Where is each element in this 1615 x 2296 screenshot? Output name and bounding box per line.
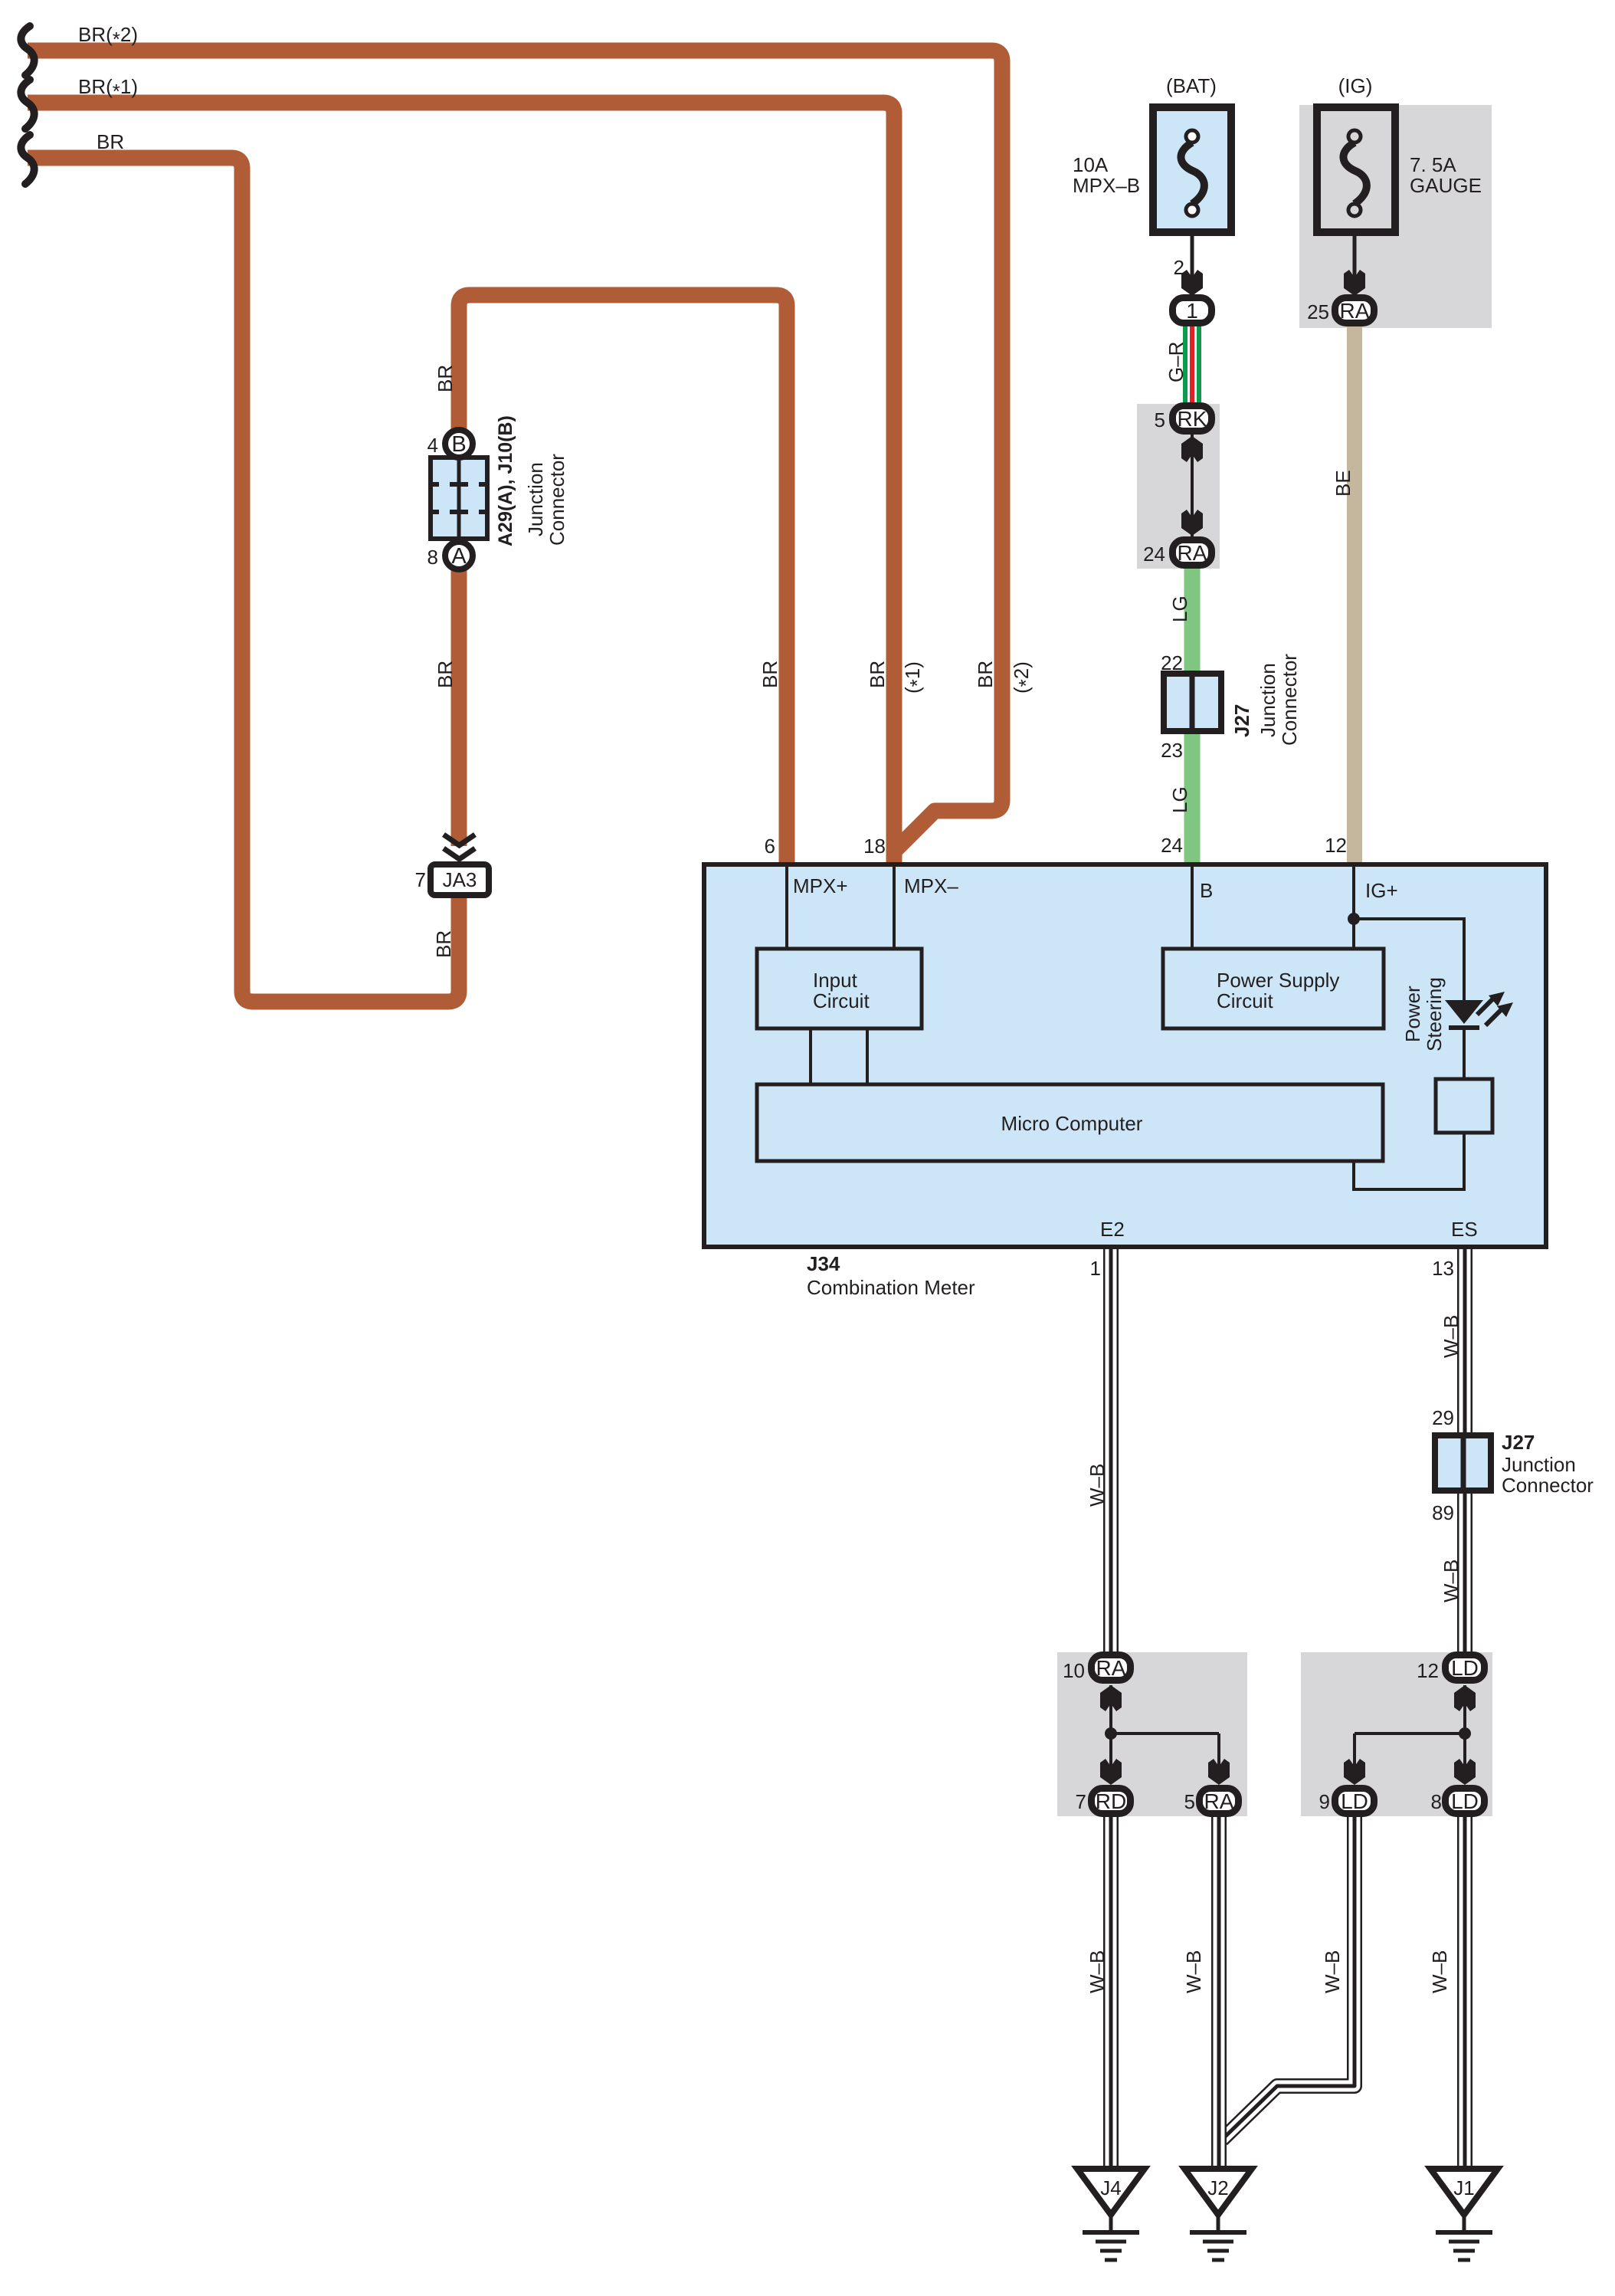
- junction connector J27 upper: [1164, 674, 1221, 731]
- arrow into connector 1: [1181, 270, 1203, 296]
- connector oval RA pin 25: [1335, 298, 1374, 323]
- svg-text:W–B: W–B: [1321, 1950, 1344, 1993]
- fuse 10A MPX-B (BAT): [1153, 107, 1231, 232]
- wire W-B from LD 8 to ground J1: [1457, 1805, 1472, 2169]
- svg-text:8: 8: [1431, 1790, 1442, 1813]
- svg-text:RA: RA: [1340, 299, 1370, 323]
- svg-text:A: A: [451, 544, 467, 569]
- svg-text:RD: RD: [1096, 1789, 1126, 1813]
- wire fuse IG to RA 25: [1353, 234, 1357, 296]
- svg-text:6: 6: [765, 835, 775, 858]
- wire pin 18 to input circuit: [893, 867, 896, 949]
- wire BR(*1) from left edge to pin 18 MPX-: [28, 103, 894, 868]
- connector oval RA pin 24: [1173, 540, 1212, 566]
- wire BE from RA 25 to pin 12 IG+: [1347, 310, 1362, 868]
- svg-text:LD: LD: [1451, 1789, 1479, 1813]
- svg-text:1: 1: [1186, 299, 1198, 323]
- svg-text:BR: BR: [758, 661, 781, 688]
- wire G-R connector 1 to RK: [1185, 310, 1199, 418]
- wire BR from left edge down and around to JA3: [28, 158, 459, 1002]
- svg-text:22: 22: [1161, 651, 1183, 674]
- arrow up into RK: [1181, 436, 1203, 462]
- squiggle start of BR(*1): [21, 80, 34, 129]
- connector oval LD pin 9: [1335, 1789, 1374, 1814]
- fuse 7.5A GAUGE (IG): [1317, 107, 1395, 232]
- branch wires in LD ground connector block: [1355, 1685, 1471, 1767]
- svg-text:25: 25: [1307, 300, 1329, 323]
- wire W-B from ES pin 13 through J27 to LD 12: [1457, 1249, 1472, 1655]
- svg-text:BR: BR: [97, 130, 124, 153]
- wire W-B from E2 pin 1 to RA 10: [1103, 1249, 1119, 1655]
- svg-text:Steering: Steering: [1423, 977, 1446, 1051]
- shaded area RA/RD/RA ground connectors: [1057, 1652, 1247, 1816]
- arrow down into LD 9: [1344, 1759, 1365, 1785]
- wire input circuit to micro computer left: [809, 1028, 812, 1084]
- wire pin 6 to input circuit: [785, 867, 788, 949]
- wire pin 12 IG+ to power supply circuit: [1352, 867, 1355, 949]
- svg-text:RK: RK: [1178, 407, 1207, 431]
- svg-text:(IG): (IG): [1338, 74, 1373, 97]
- wire micro computer to resistor box: [1354, 1133, 1464, 1189]
- svg-text:13: 13: [1432, 1257, 1454, 1280]
- svg-text:W–B: W–B: [1440, 1560, 1463, 1602]
- svg-text:(BAT): (BAT): [1166, 74, 1217, 97]
- junction connector A29(A) J10(B): [431, 458, 487, 539]
- ground J1: [1430, 2169, 1498, 2260]
- svg-text:LD: LD: [1451, 1656, 1479, 1680]
- connector circle B pin 4: [445, 430, 473, 458]
- svg-text:4: 4: [427, 434, 438, 457]
- wire W-B from RD 7 to ground J4: [1103, 1805, 1119, 2169]
- svg-text:Input: Input: [813, 969, 858, 992]
- svg-text:MPX+: MPX+: [793, 874, 848, 897]
- svg-text:BR: BR: [434, 661, 457, 688]
- wire BR circle A to JA3 arrow: [451, 570, 467, 846]
- wire node to LED branch: [1354, 919, 1464, 1002]
- svg-text:GAUGE: GAUGE: [1410, 174, 1482, 197]
- connector oval LD pin 8: [1446, 1789, 1485, 1814]
- svg-text:Connector: Connector: [1278, 654, 1301, 746]
- svg-text:RA: RA: [1178, 541, 1207, 565]
- input circuit box: [757, 949, 922, 1028]
- svg-text:Circuit: Circuit: [813, 989, 870, 1012]
- arrow down into RA 5: [1208, 1759, 1230, 1785]
- svg-text:Junction: Junction: [524, 462, 547, 536]
- svg-text:7: 7: [415, 868, 426, 891]
- LED power steering indicator: [1445, 992, 1513, 1028]
- svg-text:18: 18: [863, 835, 886, 858]
- svg-text:MPX–: MPX–: [904, 874, 958, 897]
- svg-text:5: 5: [1184, 1790, 1195, 1813]
- svg-text:BR: BR: [432, 930, 455, 958]
- svg-text:BR: BR: [434, 365, 457, 392]
- arrow down into RA 24: [1181, 510, 1203, 536]
- ground J4: [1077, 2169, 1145, 2260]
- svg-text:JA3: JA3: [443, 868, 477, 891]
- svg-text:7. 5A: 7. 5A: [1410, 153, 1456, 176]
- svg-text:1: 1: [1090, 1257, 1101, 1280]
- arrow up into RA 10: [1100, 1685, 1122, 1711]
- svg-text:8: 8: [427, 546, 438, 569]
- svg-text:23: 23: [1161, 739, 1183, 762]
- svg-text:J1: J1: [1453, 2176, 1474, 2199]
- arrow up into LD 12: [1454, 1685, 1476, 1711]
- svg-text:7: 7: [1076, 1790, 1086, 1813]
- svg-text:BE: BE: [1332, 470, 1355, 497]
- svg-text:Micro Computer: Micro Computer: [1001, 1112, 1143, 1135]
- svg-text:RA: RA: [1096, 1656, 1126, 1680]
- svg-text:89: 89: [1432, 1501, 1454, 1524]
- svg-text:Power Supply: Power Supply: [1217, 969, 1339, 992]
- connector oval RA pin 5: [1200, 1789, 1239, 1814]
- arrow into RA 25: [1344, 270, 1365, 296]
- combination meter box J34: [704, 864, 1546, 1247]
- connector oval RA pin 10: [1092, 1655, 1131, 1681]
- junction connector J27 lower: [1435, 1435, 1491, 1491]
- svg-text:LD: LD: [1341, 1789, 1368, 1813]
- svg-text:Power: Power: [1401, 986, 1424, 1042]
- branch wires in RA/RD/RA ground connector block: [1105, 1685, 1219, 1767]
- svg-text:IG+: IG+: [1365, 879, 1398, 902]
- arrow down into LD 8: [1454, 1759, 1476, 1785]
- shaded area RK/RA connectors: [1137, 404, 1220, 569]
- connector oval 1: [1173, 298, 1212, 323]
- connector oval LD pin 12: [1446, 1655, 1485, 1681]
- squiggle start of BR: [21, 135, 34, 184]
- wire input circuit to micro computer right: [866, 1028, 869, 1084]
- power supply circuit box: [1163, 949, 1384, 1028]
- svg-text:RA: RA: [1204, 1789, 1234, 1813]
- svg-text:J2: J2: [1207, 2176, 1228, 2199]
- svg-text:B: B: [451, 432, 466, 457]
- JA3 double chevron arrow: [444, 835, 475, 859]
- wire W-B from LD 9 elbow merging into RA 5 wire: [1222, 1805, 1355, 2140]
- wire RK to RA 24: [1191, 435, 1194, 536]
- svg-text:2: 2: [1174, 256, 1184, 279]
- wire pin 24 B to power supply circuit: [1191, 867, 1194, 949]
- wire W-B from RA 5 to ground J2: [1211, 1805, 1227, 2169]
- svg-text:10A: 10A: [1073, 153, 1109, 176]
- resistor box below LED: [1436, 1079, 1492, 1133]
- svg-text:Circuit: Circuit: [1217, 989, 1273, 1012]
- svg-text:Junction: Junction: [1256, 663, 1279, 737]
- svg-text:B: B: [1200, 879, 1213, 902]
- svg-text:Junction: Junction: [1502, 1453, 1576, 1476]
- svg-text:Connector: Connector: [1502, 1474, 1594, 1497]
- svg-text:J4: J4: [1100, 2176, 1121, 2199]
- wire LG from RA 24 to pin 24 B: [1184, 553, 1201, 868]
- svg-text:E2: E2: [1100, 1218, 1125, 1241]
- ground J2: [1184, 2169, 1252, 2260]
- node on IG+ line: [1348, 913, 1360, 925]
- svg-text:24: 24: [1143, 543, 1165, 566]
- connector oval RD pin 7: [1092, 1789, 1131, 1814]
- svg-text:BR: BR: [974, 661, 997, 688]
- svg-text:10: 10: [1063, 1659, 1085, 1682]
- svg-text:W–B: W–B: [1182, 1950, 1205, 1993]
- micro computer box: [757, 1084, 1383, 1161]
- svg-text:W–B: W–B: [1086, 1950, 1109, 1993]
- arrow down into RD 7: [1100, 1759, 1122, 1785]
- wire fuse BAT to connector 1: [1191, 234, 1194, 296]
- connector circle A pin 8: [445, 542, 473, 569]
- svg-text:5: 5: [1155, 408, 1165, 431]
- wire LED to resistor box: [1463, 1028, 1466, 1081]
- svg-text:ES: ES: [1451, 1218, 1478, 1241]
- wire BR(*2) from left edge to MPX- merge: [28, 51, 1002, 851]
- svg-text:LG: LG: [1168, 786, 1191, 813]
- svg-text:12: 12: [1325, 834, 1347, 857]
- svg-text:J27: J27: [1502, 1431, 1535, 1454]
- squiggle start of BR(*2): [21, 26, 34, 75]
- svg-text:Connector: Connector: [545, 454, 568, 546]
- svg-text:MPX–B: MPX–B: [1073, 174, 1140, 197]
- svg-text:A29(A), J10(B): A29(A), J10(B): [495, 415, 516, 546]
- shaded area IG fuse: [1299, 105, 1492, 328]
- svg-text:9: 9: [1319, 1790, 1330, 1813]
- svg-text:J27: J27: [1230, 704, 1253, 737]
- svg-text:LG: LG: [1168, 595, 1191, 622]
- svg-text:Combination Meter: Combination Meter: [807, 1276, 975, 1299]
- svg-text:29: 29: [1432, 1406, 1454, 1429]
- svg-text:24: 24: [1161, 834, 1183, 857]
- svg-text:J34: J34: [807, 1252, 840, 1275]
- shaded area LD ground connectors: [1301, 1652, 1492, 1816]
- svg-text:W–B: W–B: [1428, 1950, 1451, 1993]
- svg-text:12: 12: [1417, 1659, 1439, 1682]
- connector oval RK pin 5: [1173, 406, 1212, 431]
- JA3 connector box pin 7: [431, 864, 489, 895]
- svg-text:BR: BR: [866, 661, 889, 688]
- wire BR circle B up over to pin 6 MPX+: [459, 295, 787, 868]
- svg-text:W–B: W–B: [1440, 1315, 1463, 1358]
- svg-text:W–B: W–B: [1086, 1464, 1109, 1507]
- svg-text:G–R: G–R: [1165, 342, 1187, 382]
